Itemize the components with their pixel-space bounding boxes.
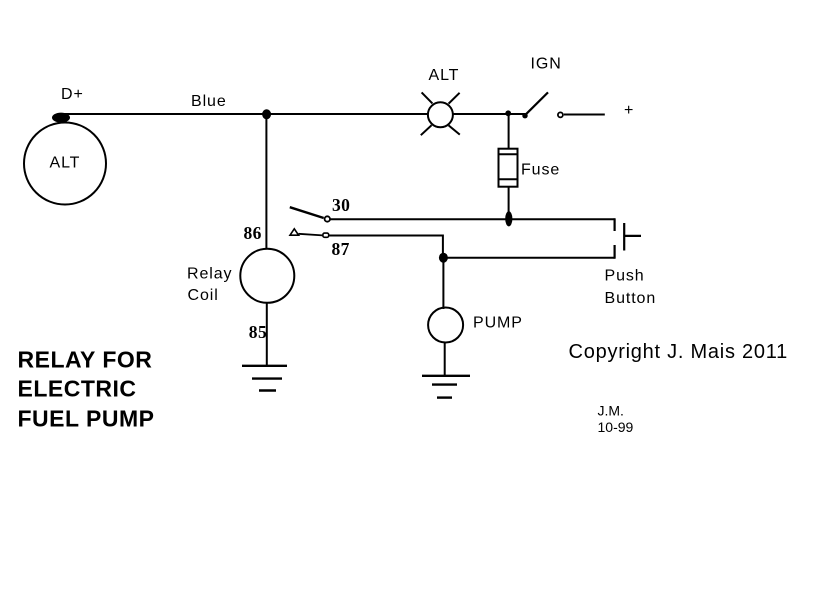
svg-text:Fuse: Fuse: [521, 162, 560, 179]
wire pump to ground: [444, 342, 446, 376]
svg-text:+: +: [624, 102, 634, 119]
svg-text:PUMP: PUMP: [473, 315, 523, 332]
svg-text:ALT: ALT: [429, 67, 460, 84]
svg-text:Blue: Blue: [191, 93, 227, 110]
alternator ALT circle: [24, 123, 106, 205]
relay coil circle: [240, 249, 294, 303]
ground (pump): [422, 376, 470, 398]
svg-text:D+: D+: [61, 86, 84, 103]
wire 30 rail: [330, 218, 615, 220]
svg-text:IGN: IGN: [531, 56, 562, 73]
node junction Blue/coil: [262, 109, 271, 119]
relay contact 30 switch arm: [290, 207, 330, 222]
wire junction to relay coil (86): [265, 114, 267, 250]
ground (relay 85): [242, 366, 287, 391]
svg-text:86: 86: [244, 223, 262, 243]
relay contact 87: [290, 229, 329, 238]
node junction pump tap: [439, 253, 448, 263]
title RELAY FOR ELECTRIC FUEL PUMP: [18, 347, 155, 432]
wire junction to pump: [442, 258, 444, 309]
svg-text:10-99: 10-99: [598, 419, 634, 435]
svg-text:Button: Button: [605, 290, 657, 307]
wire IGN terminal to +: [564, 114, 605, 116]
node junction fuse tap: [505, 110, 511, 116]
wire lamp to IGN pivot: [453, 113, 525, 115]
terminal D+ dot: [52, 113, 70, 123]
wire Blue (D+ to lamp): [61, 113, 428, 115]
node junction 30 rail: [505, 211, 512, 226]
svg-text:Copyright J. Mais 2011: Copyright J. Mais 2011: [569, 341, 789, 363]
wire junction to fuse: [508, 114, 510, 149]
indicator lamp ALT: [421, 92, 460, 135]
svg-text:FUEL PUMP: FUEL PUMP: [18, 406, 155, 432]
svg-text:85: 85: [249, 322, 267, 342]
push button contacts: [615, 218, 641, 258]
fuse body: [499, 149, 518, 187]
svg-text:Push: Push: [605, 268, 645, 285]
motor PUMP circle: [428, 308, 463, 343]
wire bottom rail to push button: [443, 257, 614, 259]
svg-text:J.M.: J.M.: [598, 402, 624, 418]
svg-text:ALT: ALT: [50, 155, 81, 172]
svg-text:87: 87: [332, 239, 350, 259]
wire fuse to 30 rail: [508, 187, 510, 219]
svg-text:30: 30: [332, 195, 350, 215]
svg-text:Coil: Coil: [188, 287, 219, 304]
switch IGN: [522, 92, 563, 118]
svg-text:Relay: Relay: [187, 266, 232, 283]
svg-text:RELAY FOR: RELAY FOR: [18, 347, 153, 373]
wire 87 rail: [330, 236, 443, 258]
svg-text:ELECTRIC: ELECTRIC: [18, 376, 137, 402]
wire coil to ground: [266, 303, 268, 366]
